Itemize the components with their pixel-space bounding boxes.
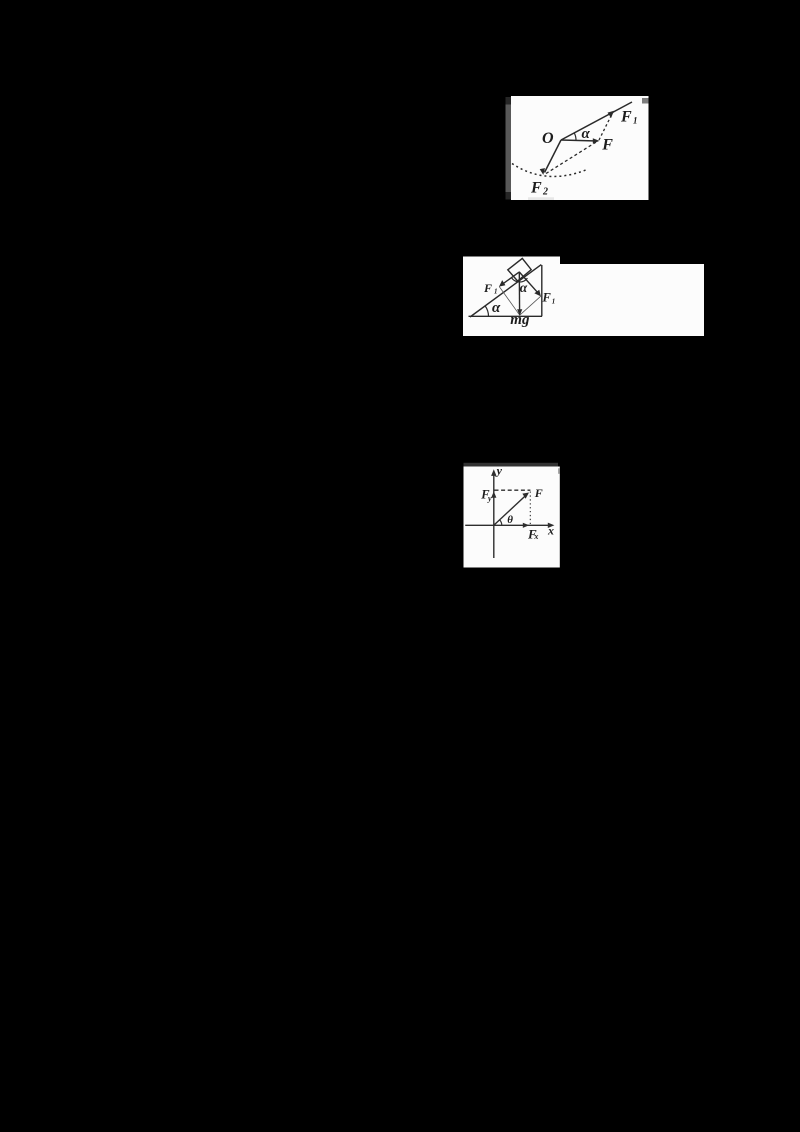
svg-text:θ: θ bbox=[507, 514, 513, 526]
svg-text:1: 1 bbox=[552, 297, 556, 305]
svg-text:1: 1 bbox=[633, 116, 638, 126]
svg-text:x: x bbox=[547, 524, 554, 538]
svg-text:F: F bbox=[620, 109, 632, 126]
svg-text:mg: mg bbox=[510, 312, 530, 328]
svg-text:O: O bbox=[542, 130, 554, 147]
svg-text:F: F bbox=[530, 180, 542, 197]
svg-text:x: x bbox=[533, 532, 538, 541]
svg-text:F: F bbox=[534, 486, 543, 500]
svg-text:α: α bbox=[520, 280, 528, 295]
svg-text:α: α bbox=[582, 126, 591, 142]
svg-text:F: F bbox=[601, 137, 613, 154]
svg-text:1: 1 bbox=[494, 288, 498, 296]
svg-text:F: F bbox=[483, 281, 492, 295]
svg-text:2: 2 bbox=[542, 186, 548, 197]
svg-text:α: α bbox=[492, 300, 501, 316]
svg-text:y: y bbox=[487, 494, 492, 503]
svg-text:y: y bbox=[495, 464, 503, 478]
svg-text:F: F bbox=[542, 291, 552, 305]
